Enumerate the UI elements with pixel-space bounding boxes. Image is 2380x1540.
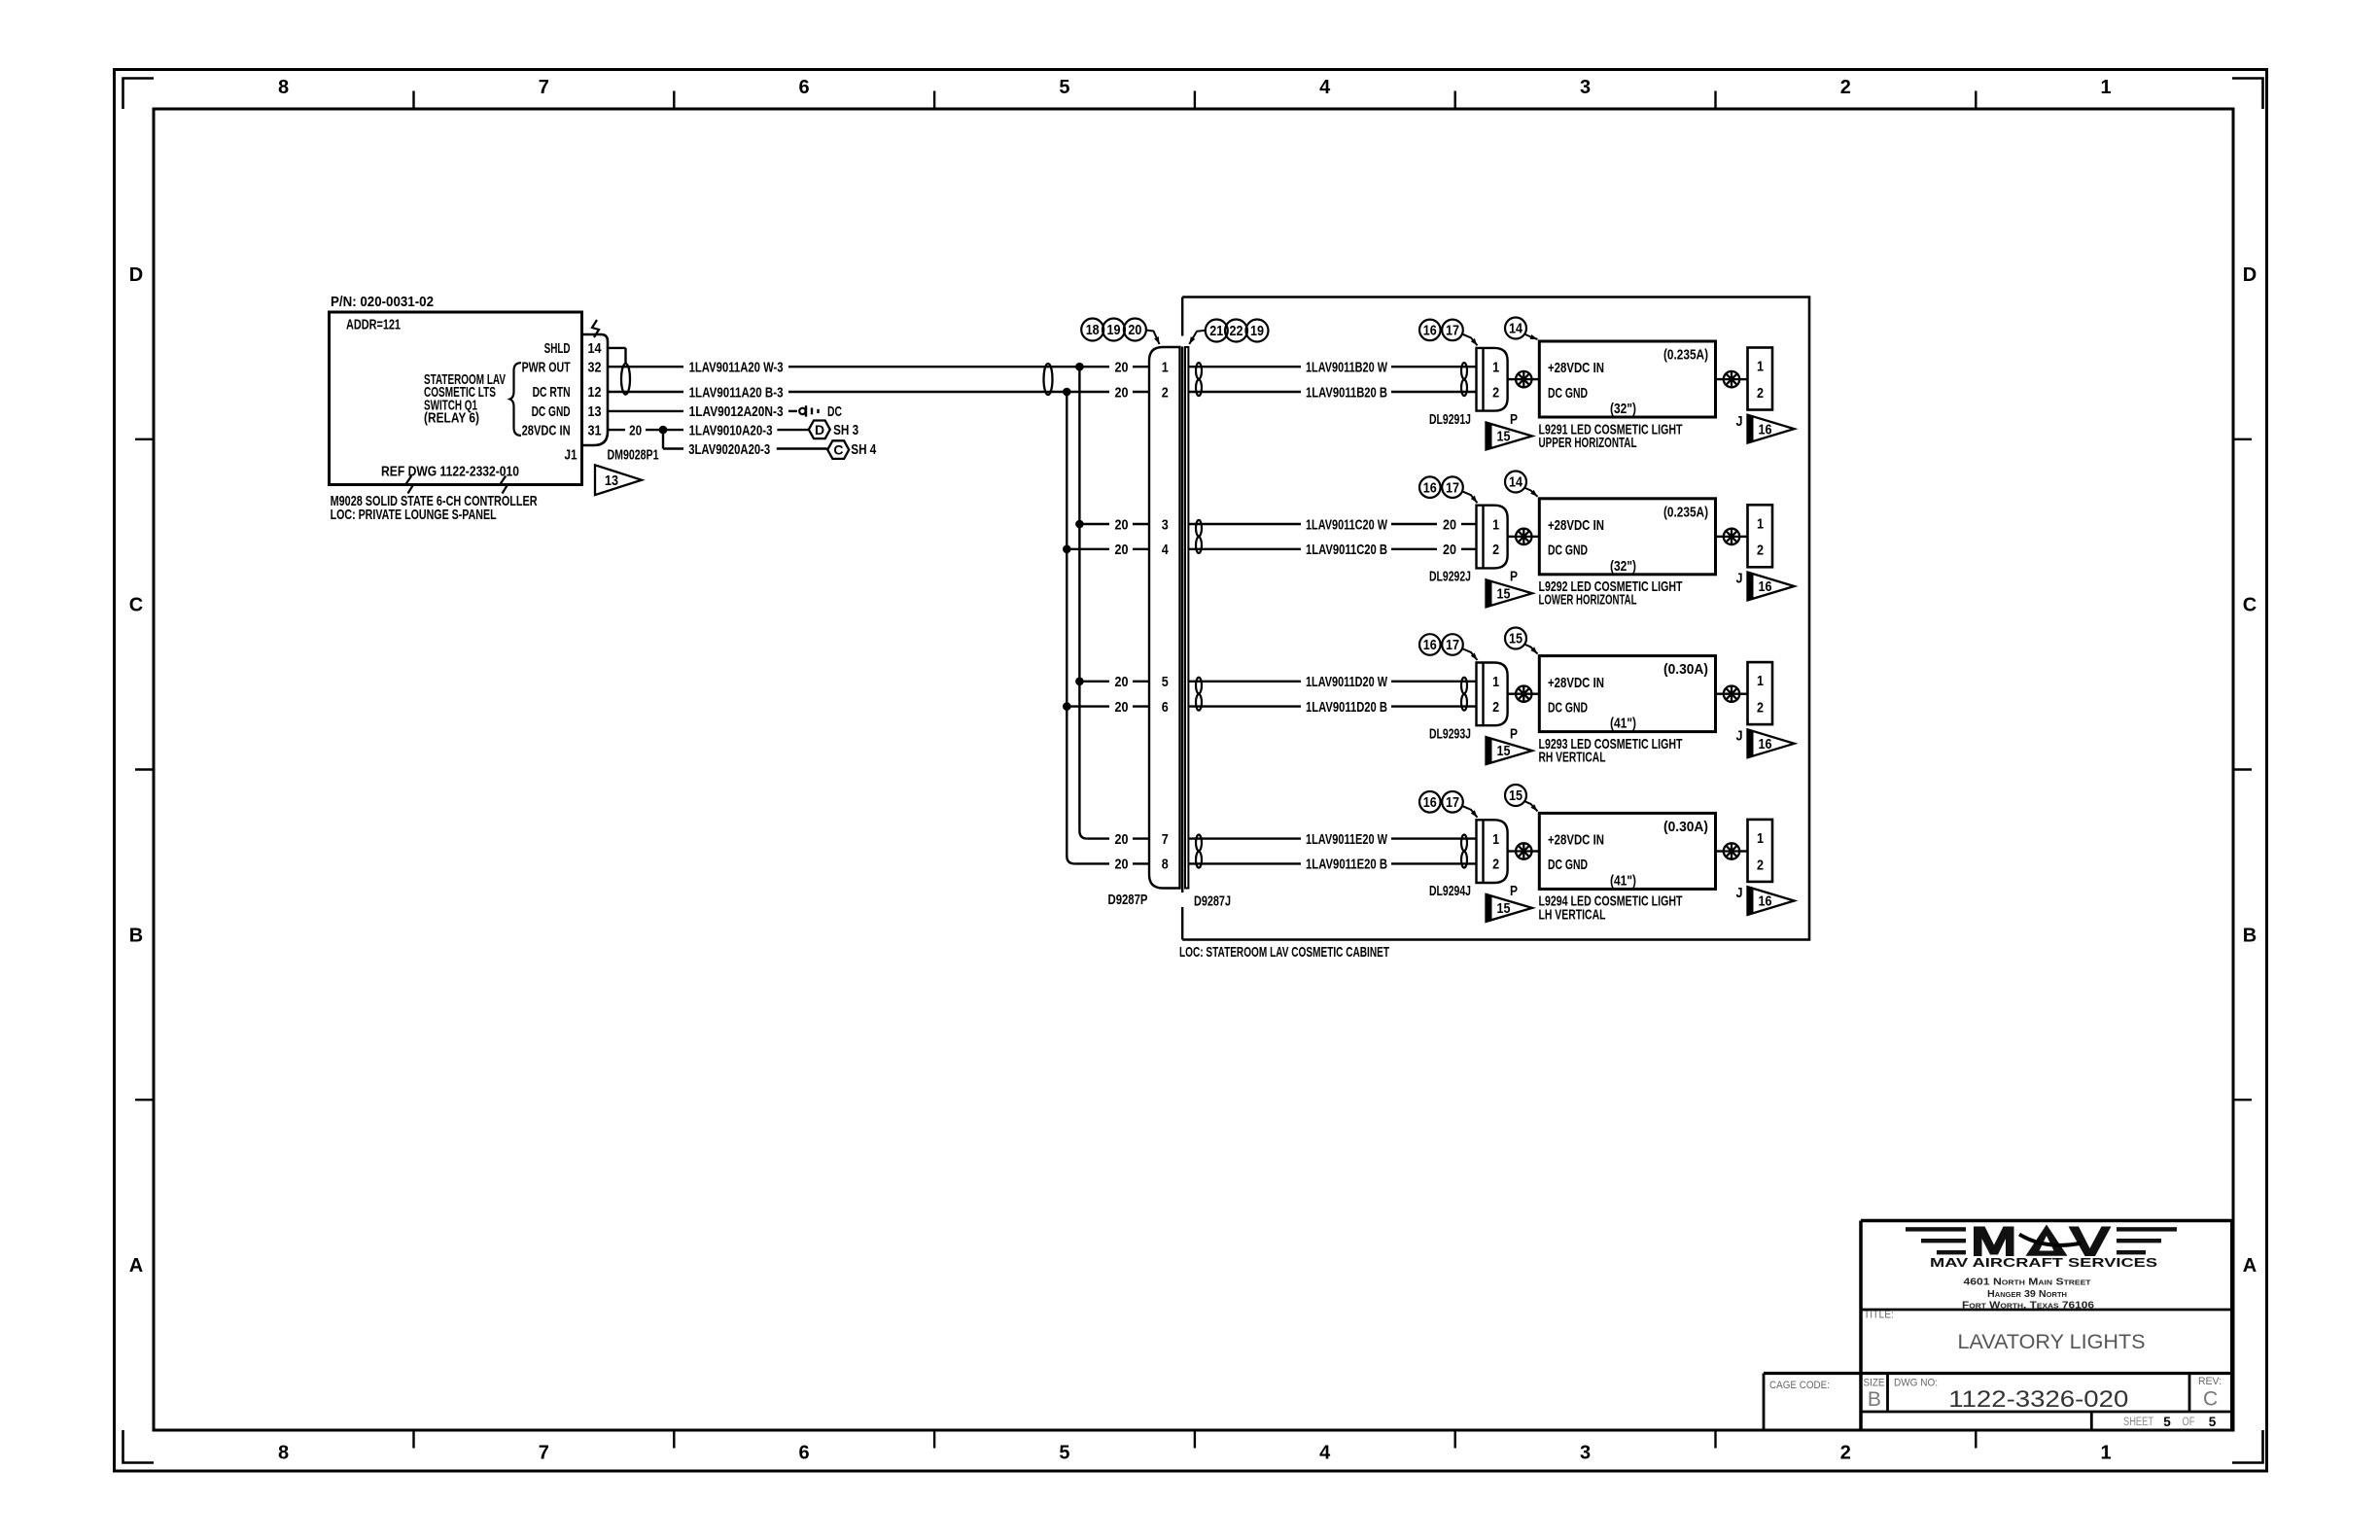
svg-text:DM9028P1: DM9028P1 — [608, 447, 659, 464]
circled note 16 — [1419, 476, 1441, 498]
svg-text:SH 3: SH 3 — [833, 422, 858, 438]
leader to LED box — [1524, 334, 1538, 340]
title block divider (number/sheet row) — [1861, 1411, 2232, 1414]
svg-text:3: 3 — [1580, 77, 1591, 98]
svg-text:D: D — [2243, 264, 2257, 286]
svg-text:1LAV9011E20 B: 1LAV9011E20 B — [1306, 857, 1387, 873]
svg-text:7: 7 — [539, 1443, 549, 1464]
svg-text:1: 1 — [1492, 516, 1499, 533]
circled note 18 — [1081, 319, 1103, 341]
wire 1LAV9011B20 W — [1189, 366, 1302, 367]
svg-text:+28VDC IN: +28VDC IN — [1548, 517, 1604, 534]
junction node B row1 — [1063, 388, 1071, 397]
svg-text:15: 15 — [1497, 901, 1511, 917]
circled note 21 — [1206, 320, 1228, 342]
connector D9287P shell — [1149, 347, 1180, 889]
svg-text:4601 North Main Street: 4601 North Main Street — [1964, 1277, 2092, 1287]
svg-text:Hanger 39 North: Hanger 39 North — [1987, 1289, 2067, 1300]
svg-text:20: 20 — [1128, 323, 1141, 338]
circled note 15 — [1505, 785, 1526, 806]
svg-text:DC GND: DC GND — [532, 403, 571, 420]
splice symbol — [1724, 529, 1739, 544]
svg-text:1LAV9011D20 W: 1LAV9011D20 W — [1306, 674, 1388, 690]
title block outer frame — [1861, 1219, 2232, 1223]
svg-text:C: C — [2203, 1388, 2218, 1411]
circled note 20 — [1124, 319, 1146, 341]
splice symbol — [1724, 686, 1739, 702]
inner border frame — [154, 109, 2233, 1430]
svg-text:DC GND: DC GND — [1548, 857, 1588, 873]
connector D9287J shell — [1185, 347, 1188, 889]
wire 1LAV9012A20N-3 (pin 13) — [608, 410, 683, 412]
wire stub to D9287P — [1133, 391, 1149, 393]
controller M9028 box — [330, 312, 582, 485]
break symbols on controller box bottom edge — [406, 476, 413, 494]
svg-text:20: 20 — [1115, 360, 1129, 376]
wire stub to D9287P — [1133, 837, 1149, 839]
circled note 16 — [1419, 791, 1441, 813]
svg-text:4: 4 — [1319, 1443, 1331, 1464]
svg-text:15: 15 — [1509, 632, 1522, 647]
svg-text:D9287J: D9287J — [1194, 892, 1231, 909]
wire segment to mid connector (W) — [788, 366, 1109, 367]
size cell divider — [1886, 1374, 1889, 1413]
svg-text:(32"): (32") — [1610, 401, 1636, 417]
svg-text:16: 16 — [1423, 324, 1437, 339]
svg-text:J: J — [1736, 727, 1743, 744]
svg-text:REV:: REV: — [2198, 1376, 2222, 1387]
zone row tick marks right — [2233, 438, 2252, 440]
svg-text:RH VERTICAL: RH VERTICAL — [1539, 750, 1606, 766]
svg-text:1: 1 — [2101, 77, 2112, 98]
twisted pair symbol at DL connector — [1461, 363, 1467, 379]
svg-text:3: 3 — [1162, 516, 1169, 533]
svg-text:15: 15 — [1497, 430, 1511, 445]
svg-text:15: 15 — [1509, 788, 1522, 804]
connector DL9294J shell — [1482, 820, 1484, 883]
circled note 17 — [1442, 791, 1463, 813]
svg-text:20: 20 — [1115, 384, 1129, 401]
svg-text:DL9294J: DL9294J — [1429, 883, 1471, 899]
twisted pair symbol at D9287J — [1196, 363, 1202, 379]
leader to D9287J — [1189, 331, 1206, 344]
svg-text:LAVATORY LIGHTS: LAVATORY LIGHTS — [1958, 1331, 2146, 1353]
twisted pair symbol at D9287J — [1196, 835, 1202, 852]
LED unit L9293 box — [1539, 656, 1715, 732]
svg-text:5: 5 — [2163, 1415, 2171, 1429]
connector J pins box — [1748, 505, 1773, 567]
branch wire to pin 7 — [1087, 837, 1109, 839]
connector J pins box — [1748, 820, 1773, 882]
svg-text:(0.235A): (0.235A) — [1663, 504, 1708, 520]
off-sheet reference C — [827, 440, 849, 459]
address line 1 — [1962, 1277, 2095, 1311]
flag 15 wire marker — [1487, 894, 1533, 922]
twisted pair symbol at DL connector — [1461, 835, 1467, 852]
branch wire to pin 4 — [1067, 548, 1109, 550]
leader to DL connector — [1463, 649, 1478, 661]
svg-text:SIZE: SIZE — [1864, 1377, 1885, 1388]
connector DL9292J shell — [1482, 506, 1484, 569]
wire continuation to DL — [1391, 681, 1477, 682]
svg-text:17: 17 — [1446, 480, 1459, 496]
svg-text:8: 8 — [1162, 857, 1169, 873]
svg-text:CAGE CODE:: CAGE CODE: — [1769, 1380, 1830, 1391]
twisted pair symbol at D9287J — [1196, 520, 1202, 537]
splice symbol — [1724, 371, 1739, 387]
svg-text:P: P — [1510, 569, 1518, 585]
svg-text:8: 8 — [278, 1443, 289, 1464]
LED unit L9294 box — [1539, 813, 1715, 889]
svg-text:1: 1 — [1162, 360, 1169, 376]
svg-text:2: 2 — [1757, 385, 1764, 402]
logo speed lines right — [2117, 1227, 2177, 1254]
svg-text:J: J — [1736, 571, 1743, 587]
svg-text:1LAV9012A20N-3: 1LAV9012A20N-3 — [689, 403, 784, 420]
splice symbol — [1516, 843, 1531, 858]
svg-text:D: D — [815, 422, 824, 437]
branch wire to pin 6 — [1067, 705, 1109, 707]
leader to DL connector — [1463, 806, 1478, 818]
svg-text:B: B — [129, 926, 143, 947]
circled note 15 — [1505, 628, 1526, 649]
title block divider (logo/title) — [1861, 1309, 2232, 1312]
circled note 17 — [1442, 320, 1463, 341]
wire to LED unit — [1508, 536, 1517, 538]
wire 3LAV9020A20-3 branch — [662, 430, 664, 448]
zone row tick marks left — [135, 438, 154, 440]
svg-text:J: J — [1736, 885, 1743, 901]
svg-text:Fort Worth, Texas 76106: Fort Worth, Texas 76106 — [1962, 1300, 2095, 1311]
branch wire to pin 5 — [1079, 681, 1109, 682]
svg-text:1: 1 — [1757, 830, 1764, 847]
svg-text:2: 2 — [1162, 384, 1169, 401]
logo swoosh — [2019, 1235, 2082, 1245]
svg-text:J: J — [1736, 413, 1743, 430]
svg-text:OF: OF — [2183, 1417, 2195, 1428]
leader to LED box — [1524, 645, 1538, 654]
flag 16 wire marker — [1748, 415, 1795, 443]
svg-text:14: 14 — [1509, 322, 1522, 337]
svg-text:A: A — [2243, 1255, 2257, 1277]
flag 15 wire marker — [1487, 423, 1533, 450]
svg-text:16: 16 — [1423, 795, 1437, 811]
wire continuation to DL — [1391, 366, 1477, 367]
svg-text:1: 1 — [1757, 359, 1764, 375]
svg-text:14: 14 — [1509, 475, 1522, 491]
circled note 17 — [1442, 476, 1463, 498]
svg-text:22: 22 — [1230, 324, 1243, 339]
svg-text:20: 20 — [1115, 516, 1129, 533]
flag 16 wire marker — [1748, 729, 1795, 757]
svg-text:DC GND: DC GND — [1548, 699, 1588, 716]
leader to D9287P — [1146, 331, 1160, 345]
corner trim mark bottom-right — [2232, 1430, 2263, 1463]
svg-text:REF DWG 1122-2332-010: REF DWG 1122-2332-010 — [381, 463, 519, 479]
svg-text:1: 1 — [1492, 831, 1499, 848]
wire 1LAV9011E20 B — [1189, 862, 1302, 864]
svg-text:20: 20 — [1443, 516, 1456, 533]
svg-text:13: 13 — [605, 473, 618, 489]
circled note 22 — [1225, 320, 1247, 342]
wire to LED unit — [1508, 850, 1517, 852]
connector J1/DM9028P1 shell — [582, 334, 609, 445]
svg-text:19: 19 — [1107, 323, 1121, 338]
svg-text:6: 6 — [799, 1443, 810, 1464]
svg-text:5: 5 — [1059, 1443, 1069, 1464]
sheet row divider — [2090, 1412, 2093, 1430]
svg-text:20: 20 — [1115, 857, 1129, 873]
svg-text:15: 15 — [1497, 586, 1511, 602]
svg-text:18: 18 — [1086, 323, 1100, 338]
svg-text:5: 5 — [1162, 674, 1169, 690]
splice symbol — [1516, 686, 1531, 702]
svg-text:1LAV9011A20 B-3: 1LAV9011A20 B-3 — [689, 384, 784, 401]
leader to DL connector — [1463, 492, 1478, 504]
cabinet box left edge (lower segment) — [1181, 907, 1183, 940]
branch wire to pin 8 — [1074, 862, 1109, 864]
svg-text:+28VDC IN: +28VDC IN — [1548, 675, 1604, 691]
wire to J connector — [1716, 378, 1724, 380]
circled note 14 — [1505, 472, 1526, 493]
svg-text:16: 16 — [1759, 422, 1772, 437]
svg-text:2: 2 — [1757, 857, 1764, 873]
svg-text:1LAV9011B20 W: 1LAV9011B20 W — [1306, 360, 1388, 376]
svg-text:LOC: STATEROOM LAV COSMETIC CA: LOC: STATEROOM LAV COSMETIC CABINET — [1179, 944, 1389, 961]
wire stub to D9287P — [1133, 548, 1149, 550]
circled note 19 — [1102, 319, 1125, 341]
svg-text:12: 12 — [588, 384, 602, 401]
wire stub to D9287P — [1133, 705, 1149, 707]
svg-text:20: 20 — [1115, 542, 1129, 558]
svg-text:LOC: PRIVATE LOUNGE S-PANEL: LOC: PRIVATE LOUNGE S-PANEL — [331, 507, 497, 523]
svg-text:20: 20 — [629, 422, 642, 438]
wire B distribution vertical — [1067, 392, 1074, 863]
svg-text:DC: DC — [827, 403, 842, 420]
svg-text:16: 16 — [1423, 480, 1437, 496]
wire 1LAV9010A20-3 (pin 31) — [608, 429, 625, 431]
svg-text:1: 1 — [1757, 673, 1764, 689]
svg-text:7: 7 — [1162, 831, 1169, 848]
zone column tick marks bottom — [412, 1430, 414, 1449]
title block divider (title/number row) — [1764, 1372, 2232, 1375]
flag 16 wire marker — [1748, 887, 1795, 915]
wire 1LAV9011C20 B — [1189, 548, 1302, 550]
svg-text:6: 6 — [799, 77, 810, 98]
leader to LED box — [1524, 801, 1538, 811]
svg-text:B: B — [2243, 926, 2257, 947]
shield oval (controller side) — [621, 364, 630, 395]
svg-text:DWG NO:: DWG NO: — [1894, 1377, 1938, 1388]
svg-text:DC RTN: DC RTN — [533, 384, 571, 401]
svg-text:3LAV9020A20-3: 3LAV9020A20-3 — [688, 441, 770, 458]
break symbol at top of connector strip — [592, 320, 599, 337]
splice symbol — [1724, 843, 1739, 858]
svg-text:+28VDC IN: +28VDC IN — [1548, 832, 1604, 849]
svg-text:P: P — [1510, 883, 1518, 899]
svg-text:28VDC IN: 28VDC IN — [522, 422, 571, 438]
svg-text:20: 20 — [1115, 674, 1129, 690]
twisted pair symbol at D9287J — [1196, 678, 1202, 694]
cabinet box left edge (upper segment) — [1181, 297, 1183, 336]
svg-text:2: 2 — [1492, 542, 1499, 558]
flag 16 wire marker — [1748, 573, 1795, 601]
svg-text:TITLE:: TITLE: — [1864, 1310, 1894, 1321]
svg-text:16: 16 — [1759, 894, 1772, 910]
rev cell divider — [2188, 1374, 2191, 1413]
cabinet box left edge (behind connector) — [1181, 347, 1183, 893]
svg-text:(41"): (41") — [1610, 716, 1636, 732]
svg-text:LOWER HORIZONTAL: LOWER HORIZONTAL — [1539, 592, 1637, 609]
svg-text:1LAV9010A20-3: 1LAV9010A20-3 — [689, 422, 773, 438]
svg-text:(0.30A): (0.30A) — [1663, 819, 1708, 835]
flag 15 wire marker — [1487, 579, 1533, 607]
leader to DL connector — [1463, 334, 1478, 346]
svg-text:1: 1 — [1492, 360, 1499, 376]
svg-text:19: 19 — [1250, 324, 1264, 339]
zone column tick marks top — [412, 91, 414, 110]
wire stub to D9287P — [1133, 523, 1149, 525]
corner trim mark top-right — [2232, 79, 2263, 110]
wire stub to D9287P — [1133, 862, 1149, 864]
wire shield drain pin 14 — [608, 347, 626, 349]
wire 1LAV9011E20 W — [1189, 837, 1302, 839]
connector J pins box — [1748, 348, 1773, 410]
svg-text:MAV AIRCRAFT SERVICES: MAV AIRCRAFT SERVICES — [1930, 1256, 2157, 1270]
wire 1LAV9011D20 W — [1189, 681, 1302, 682]
svg-text:31: 31 — [588, 422, 602, 438]
flag 15 wire marker — [1487, 737, 1533, 764]
svg-text:UPPER HORIZONTAL: UPPER HORIZONTAL — [1539, 435, 1637, 451]
svg-text:A: A — [129, 1255, 143, 1277]
wire W distribution vertical — [1079, 367, 1087, 838]
cage code cell left edge — [1763, 1374, 1766, 1431]
svg-text:1LAV9011B20 B: 1LAV9011B20 B — [1306, 384, 1387, 401]
svg-text:(0.30A): (0.30A) — [1663, 661, 1708, 678]
wire 1LAV9011C20 W — [1189, 523, 1302, 525]
svg-text:1: 1 — [1492, 674, 1499, 690]
svg-text:ADDR=121: ADDR=121 — [346, 317, 401, 333]
svg-text:DC GND: DC GND — [1548, 385, 1588, 402]
svg-text:D: D — [129, 264, 143, 286]
svg-text:20: 20 — [1115, 699, 1129, 716]
svg-text:2: 2 — [1840, 77, 1851, 98]
svg-text:DC GND: DC GND — [1548, 542, 1588, 559]
circled note 19b — [1246, 320, 1269, 342]
connector DL9293J shell — [1482, 663, 1484, 726]
splice symbol — [1516, 529, 1531, 544]
wire continuation with gauge labels — [1391, 523, 1437, 525]
connector DL9291J shell — [1482, 348, 1484, 411]
svg-text:C: C — [129, 595, 143, 616]
circled note 16 — [1419, 634, 1441, 655]
svg-text:1LAV9011C20 W: 1LAV9011C20 W — [1306, 516, 1388, 533]
svg-text:7: 7 — [539, 77, 549, 98]
LED unit L9292 box — [1539, 499, 1715, 575]
circled note 17 — [1442, 634, 1463, 655]
svg-text:B: B — [1868, 1388, 1881, 1411]
svg-text:DL9292J: DL9292J — [1429, 569, 1471, 585]
logo speed lines left — [1906, 1227, 1966, 1254]
svg-text:14: 14 — [588, 340, 603, 357]
DC ground symbol — [799, 408, 805, 414]
svg-text:3: 3 — [1580, 1443, 1591, 1464]
MAV logo wordmark — [1974, 1225, 2112, 1257]
svg-text:LH VERTICAL: LH VERTICAL — [1539, 906, 1606, 923]
svg-text:21: 21 — [1209, 324, 1223, 339]
svg-text:(41"): (41") — [1610, 873, 1636, 890]
junction node W row2 — [1075, 520, 1084, 529]
svg-text:DL9293J: DL9293J — [1429, 725, 1471, 742]
svg-text:20: 20 — [1115, 831, 1129, 848]
svg-text:32: 32 — [588, 359, 602, 375]
svg-text:16: 16 — [1759, 737, 1772, 752]
svg-text:6: 6 — [1162, 699, 1169, 716]
wire 1LAV9011A20 B-3 (pin 12) — [608, 391, 683, 393]
svg-text:J1: J1 — [565, 447, 577, 464]
wire to J connector — [1716, 536, 1724, 538]
svg-text:2: 2 — [1840, 1443, 1851, 1464]
junction node B row2 — [1063, 545, 1071, 554]
svg-text:5: 5 — [2209, 1415, 2217, 1429]
svg-text:C: C — [2243, 595, 2257, 616]
circled note 16 — [1419, 320, 1441, 341]
junction node W row1 — [1075, 363, 1084, 371]
wire to LED unit — [1508, 693, 1517, 695]
svg-text:D9287P: D9287P — [1108, 892, 1148, 908]
wire stub to D9287P — [1133, 366, 1149, 367]
svg-text:P: P — [1510, 411, 1518, 428]
corner trim mark top-left — [123, 79, 155, 110]
svg-text:17: 17 — [1446, 638, 1459, 653]
svg-text:17: 17 — [1446, 324, 1459, 339]
svg-text:1LAV9011D20 B: 1LAV9011D20 B — [1306, 699, 1387, 716]
junction node — [659, 426, 668, 435]
svg-text:16: 16 — [1423, 638, 1437, 653]
svg-text:2: 2 — [1757, 542, 1764, 559]
svg-text:2: 2 — [1492, 384, 1499, 401]
svg-text:1: 1 — [2101, 1443, 2112, 1464]
splice symbol — [1516, 371, 1531, 387]
svg-text:4: 4 — [1162, 542, 1170, 558]
branch wire to pin 3 — [1079, 523, 1109, 525]
leader to LED box — [1524, 488, 1538, 497]
svg-text:1LAV9011A20 W-3: 1LAV9011A20 W-3 — [689, 360, 784, 376]
wire 1LAV9011A20 W-3 (pin 32) — [608, 366, 683, 367]
junction node W row3 — [1075, 678, 1084, 686]
shield oval (mid) — [1044, 364, 1053, 395]
svg-text:1: 1 — [1757, 515, 1764, 532]
svg-text:P: P — [1510, 725, 1518, 742]
cabinet box (top/right/bottom edges) — [1182, 297, 1809, 940]
LED unit L9291 box — [1539, 341, 1715, 417]
svg-text:13: 13 — [588, 403, 602, 420]
wire 1LAV9011B20 B — [1189, 391, 1302, 393]
svg-text:SH 4: SH 4 — [851, 441, 877, 458]
svg-text:2: 2 — [1757, 700, 1764, 717]
circled note 14 — [1505, 318, 1526, 339]
svg-text:8: 8 — [278, 77, 289, 98]
wire continuation to DL — [1391, 837, 1477, 839]
svg-text:(RELAY 6): (RELAY 6) — [424, 410, 479, 427]
svg-text:(0.235A): (0.235A) — [1663, 347, 1708, 364]
svg-text:15: 15 — [1497, 744, 1511, 759]
svg-text:17: 17 — [1446, 795, 1459, 811]
wire to LED unit — [1508, 378, 1517, 380]
junction node B row3 — [1063, 702, 1071, 711]
svg-text:PWR OUT: PWR OUT — [522, 359, 571, 375]
corner trim mark bottom-left — [123, 1430, 155, 1463]
